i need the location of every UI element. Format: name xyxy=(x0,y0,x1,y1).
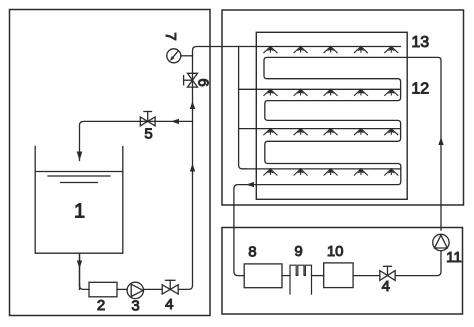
svg-text:7: 7 xyxy=(162,32,179,40)
svg-text:2: 2 xyxy=(97,297,105,314)
svg-text:9: 9 xyxy=(294,243,302,260)
svg-text:5: 5 xyxy=(144,126,152,143)
svg-text:4: 4 xyxy=(165,296,173,313)
svg-text:3: 3 xyxy=(131,298,139,315)
svg-text:1: 1 xyxy=(74,201,85,223)
svg-text:11: 11 xyxy=(446,249,462,266)
svg-text:10: 10 xyxy=(327,243,344,260)
svg-text:8: 8 xyxy=(248,244,256,261)
svg-text:4: 4 xyxy=(382,278,390,295)
svg-text:12: 12 xyxy=(411,81,429,98)
svg-text:6: 6 xyxy=(195,78,212,86)
svg-text:13: 13 xyxy=(411,34,429,51)
